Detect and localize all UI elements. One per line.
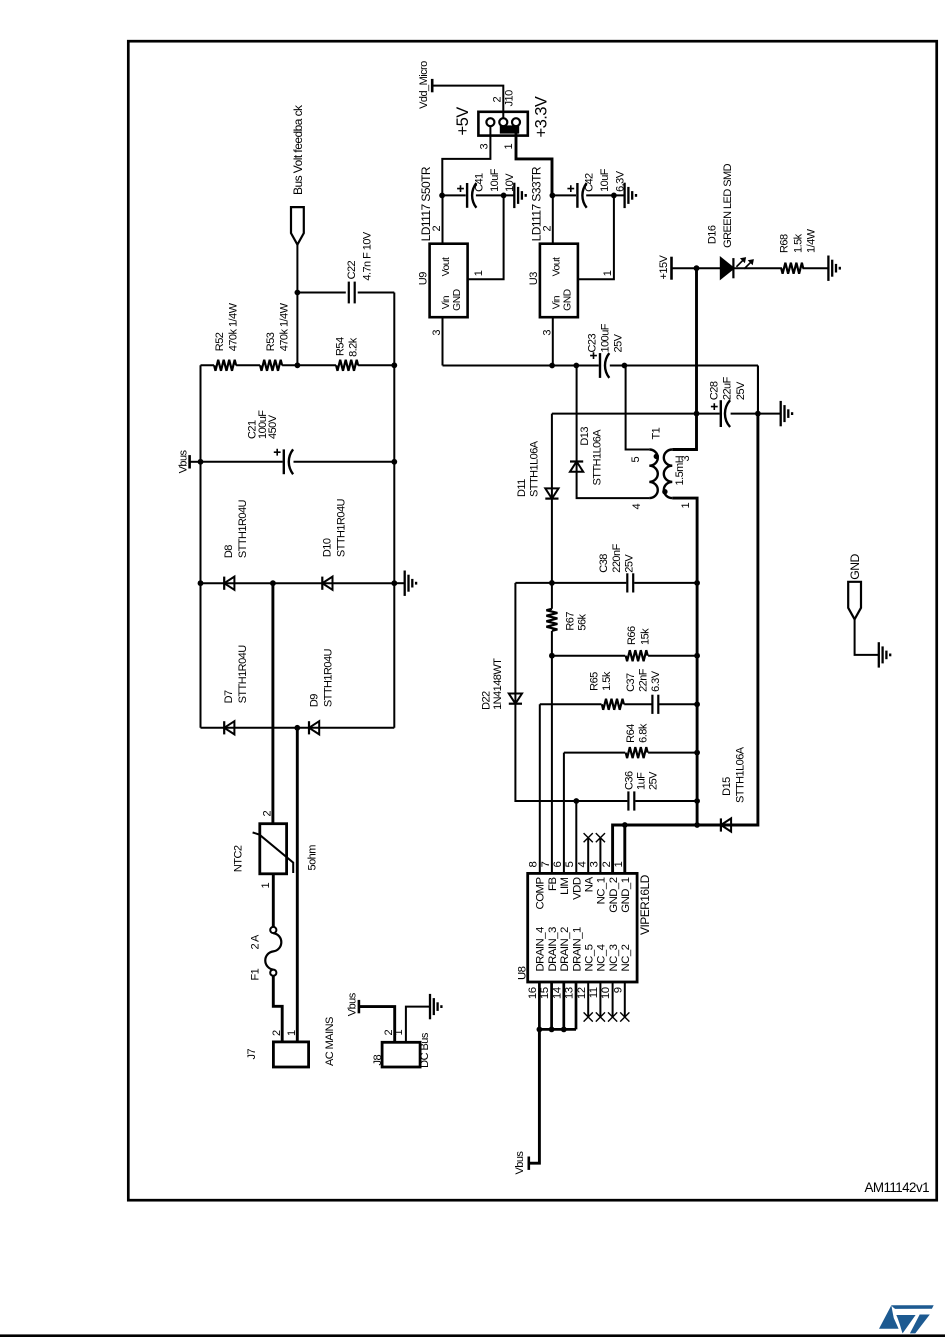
resistor R64 <box>626 747 648 758</box>
svg-text:56k: 56k <box>577 613 589 630</box>
wire FB pin 7 line <box>551 414 553 874</box>
wire fuse to NTC2 <box>272 874 275 927</box>
wire divider node to flag <box>296 245 298 366</box>
svg-text:4: 4 <box>631 504 643 510</box>
resistor R68 <box>781 263 803 274</box>
fuse F1 <box>265 927 281 976</box>
wire T1 pin4 lead <box>577 366 650 499</box>
wire bridge leg D7/D9 <box>201 727 395 729</box>
junction bus/C38 <box>694 580 700 586</box>
resistor R66 <box>626 650 648 661</box>
junction C41 bottom <box>501 193 507 199</box>
junction C21 / bottom rail <box>391 459 397 465</box>
svg-text:1/4W: 1/4W <box>806 228 818 253</box>
svg-text:D11: D11 <box>516 479 528 497</box>
svg-text:13: 13 <box>564 987 576 999</box>
svg-text:1: 1 <box>680 503 692 509</box>
svg-text:Vin: Vin <box>441 295 452 309</box>
svg-text:16: 16 <box>527 987 539 999</box>
svg-text:1N4148WT: 1N4148WT <box>492 658 504 710</box>
svg-text:STTH1R04U: STTH1R04U <box>322 648 334 707</box>
svg-text:C37: C37 <box>625 673 637 692</box>
junction rail/D13 <box>573 363 579 369</box>
pin circle J10-3 <box>486 118 494 126</box>
wire COMP pin 8 <box>539 704 541 873</box>
no-connect cross pin 11 <box>596 1012 605 1021</box>
junction bottom rail / D10 leg <box>391 580 397 586</box>
wire C36 branch <box>576 800 697 802</box>
svg-text:NA: NA <box>584 877 596 893</box>
connector J8 (DC bus) <box>382 1042 420 1067</box>
junction +15V/T1 pin3 line <box>694 265 700 271</box>
svg-text:2: 2 <box>541 226 553 232</box>
capacitor C37 <box>651 695 653 714</box>
resistor R53 <box>260 360 282 371</box>
svg-text:2: 2 <box>492 97 504 103</box>
svg-text:3: 3 <box>431 330 443 336</box>
svg-text:1: 1 <box>602 270 614 276</box>
svg-text:NC_1: NC_1 <box>596 877 608 904</box>
junction bus/C37 <box>694 701 700 707</box>
svg-text:T1: T1 <box>650 427 662 439</box>
wire R64 branch <box>564 752 697 754</box>
junction C42 bottom <box>611 193 617 199</box>
diode D22 <box>509 694 522 704</box>
svg-text:STTH1R04U: STTH1R04U <box>335 498 347 557</box>
svg-text:10uF: 10uF <box>489 168 501 192</box>
svg-text:D7: D7 <box>223 690 235 703</box>
svg-text:+5V: +5V <box>454 107 472 136</box>
svg-text:1: 1 <box>473 270 485 276</box>
transformer T1 primary winding <box>649 450 658 499</box>
svg-text:R67: R67 <box>565 612 577 631</box>
Vdd_Micro net flag <box>431 79 434 92</box>
junction FB/C38 <box>549 580 555 586</box>
thermistor NTC2 <box>253 824 294 874</box>
wire U9 pin2 Vout <box>442 195 444 243</box>
junction riser/T1 pin3 line <box>694 411 700 417</box>
junction AC1 <box>270 580 276 586</box>
junction VDD/C36/D22 <box>573 798 579 804</box>
wire R65/C37 branch <box>540 703 697 705</box>
svg-text:GREEN LED SMD: GREEN LED SMD <box>722 163 734 248</box>
wire D15 branch <box>697 414 758 825</box>
jumper shunt J10 <box>500 125 519 133</box>
junction bus/C36 <box>694 798 700 804</box>
svg-text:U8: U8 <box>517 966 529 980</box>
svg-text:1: 1 <box>503 144 515 150</box>
svg-text:470k 1/4W: 470k 1/4W <box>228 302 240 351</box>
svg-text:NC_2: NC_2 <box>620 944 632 971</box>
svg-text:D22: D22 <box>480 691 492 710</box>
svg-text:25V: 25V <box>735 381 747 400</box>
wire J7 pin2 to fuse <box>273 976 282 1042</box>
regulator U9 body <box>430 244 468 318</box>
svg-text:Vdd_Micro: Vdd_Micro <box>418 61 430 109</box>
wire ground link to output <box>757 366 759 414</box>
resistor R65 <box>602 699 624 710</box>
pin circle J10-2 <box>499 118 507 126</box>
svg-text:7: 7 <box>540 862 552 868</box>
svg-text:1: 1 <box>393 1030 405 1036</box>
svg-text:8: 8 <box>528 862 540 868</box>
svg-text:8.2k: 8.2k <box>347 337 359 357</box>
wire C38 branch <box>515 582 696 584</box>
ST logo <box>879 1305 934 1333</box>
svg-text:3: 3 <box>589 862 601 868</box>
wire J10 pin3 <box>442 126 490 196</box>
capacitor C41 <box>466 183 468 208</box>
wire U8 pin 12 stub <box>587 982 589 1017</box>
diode D8 <box>224 577 234 590</box>
svg-text:10uF: 10uF <box>599 168 611 192</box>
wire bridge leg D8/D10 <box>201 582 395 584</box>
svg-text:Vbus: Vbus <box>347 992 359 1016</box>
junction riser/ground link <box>755 411 761 417</box>
wire U8 pin 9 stub <box>624 982 626 1017</box>
wire bottom rail <box>393 293 395 728</box>
footer rule <box>0 1334 945 1337</box>
svg-text:25V: 25V <box>623 554 635 573</box>
wire IC ground bus <box>672 498 697 825</box>
diode D15 <box>721 818 731 831</box>
earth ground at bridge <box>394 571 416 596</box>
junction R54 / bottom rail <box>391 362 397 368</box>
svg-text:STTH1L06A: STTH1L06A <box>735 746 747 803</box>
capacitor C42 <box>576 183 578 208</box>
svg-text:LIM: LIM <box>559 877 571 894</box>
svg-text:Vout: Vout <box>441 257 452 276</box>
transformer T1 secondary winding <box>664 450 673 499</box>
svg-text:R53: R53 <box>265 332 277 351</box>
wire U8 pin 4 stub <box>587 838 589 874</box>
svg-text:R52: R52 <box>214 332 226 351</box>
svg-text:R68: R68 <box>778 234 790 253</box>
svg-text:U9: U9 <box>418 272 430 285</box>
svg-text:D9: D9 <box>309 694 321 707</box>
svg-text:FB: FB <box>547 878 559 891</box>
svg-text:STTH1R04U: STTH1R04U <box>237 499 249 558</box>
svg-text:25V: 25V <box>612 333 624 352</box>
svg-text:+3.3V: +3.3V <box>533 96 551 137</box>
svg-text:15: 15 <box>539 987 551 999</box>
wire U8 pin 3 stub <box>599 838 601 874</box>
svg-text:6: 6 <box>552 862 564 868</box>
wire T1 pin3 lead <box>672 268 696 449</box>
svg-text:9: 9 <box>612 987 624 993</box>
svg-text:1uF: 1uF <box>635 772 647 790</box>
wire GND pins 1-2 <box>613 825 698 873</box>
svg-text:11: 11 <box>588 987 600 998</box>
svg-text:DC Bus: DC Bus <box>419 1032 431 1068</box>
no-connect cross pin 4 <box>584 833 593 842</box>
no-connect cross pin 10 <box>608 1012 617 1021</box>
svg-text:AM11142v1: AM11142v1 <box>864 1180 929 1195</box>
wire U8 pin 11 stub <box>599 982 601 1017</box>
plus sign (C28) <box>711 403 718 410</box>
svg-text:25V: 25V <box>647 771 659 790</box>
svg-text:DRAIN_1: DRAIN_1 <box>571 927 583 971</box>
junction drain pin 14 <box>561 1027 567 1033</box>
Vbus net flag (J8) <box>358 1000 361 1013</box>
phasing dot T1 pin1 <box>662 489 667 494</box>
resistor R54 <box>336 360 358 371</box>
junction rail/T1 pin5 <box>622 363 628 369</box>
svg-text:C23: C23 <box>587 334 599 353</box>
no-connect cross pin 12 <box>584 1012 593 1021</box>
svg-text:C28: C28 <box>708 381 720 400</box>
svg-text:5: 5 <box>564 862 576 868</box>
wire C22 lower <box>358 292 395 294</box>
svg-text:Vout: Vout <box>551 257 562 276</box>
resistor R67 <box>546 609 557 631</box>
led arrows D16 <box>736 257 754 269</box>
svg-text:2: 2 <box>271 1030 283 1036</box>
svg-text:VIPER16LD: VIPER16LD <box>638 874 652 935</box>
diode D13 <box>570 462 583 472</box>
wire J8 pin1 to earth <box>406 1007 430 1043</box>
svg-text:1: 1 <box>613 862 625 868</box>
diode D9 <box>309 721 319 734</box>
capacitor C22 <box>348 282 350 304</box>
wire D11 anode riser <box>552 413 781 415</box>
svg-text:2: 2 <box>601 862 613 868</box>
svg-text:NC_3: NC_3 <box>608 944 620 971</box>
wire R66 branch <box>552 655 697 657</box>
capacitor C28 <box>720 400 722 427</box>
svg-text:GND: GND <box>848 554 862 580</box>
svg-text:STTH1L06A: STTH1L06A <box>528 440 540 497</box>
svg-text:R65: R65 <box>589 672 601 691</box>
wire U3 pin3 Vin <box>552 317 554 365</box>
svg-text:R54: R54 <box>334 337 346 356</box>
node flag Bus Volt feedback <box>291 207 304 245</box>
svg-text:3: 3 <box>541 330 553 336</box>
svg-text:STTH1R04U: STTH1R04U <box>237 645 249 704</box>
+15V net flag <box>670 257 673 280</box>
svg-text:STTH1L06A: STTH1L06A <box>591 429 603 486</box>
svg-text:2 A: 2 A <box>250 934 262 949</box>
svg-text:VDD: VDD <box>571 877 583 900</box>
capacitor C38 <box>626 573 628 592</box>
svg-text:DRAIN_3: DRAIN_3 <box>547 927 559 971</box>
wire U8 pin 10 stub <box>612 982 614 1017</box>
svg-text:R66: R66 <box>626 626 638 645</box>
svg-text:Vbus: Vbus <box>514 1151 526 1175</box>
earth ground at J8 <box>430 994 441 1019</box>
svg-text:4.7n F 10V: 4.7n F 10V <box>361 231 373 281</box>
junction drain pin 16 <box>537 1027 543 1033</box>
wire drain pins 16-13 <box>539 982 576 1029</box>
wire drain bus to Vbus flag <box>529 1029 540 1163</box>
svg-text:C22: C22 <box>346 260 358 279</box>
svg-text:450V: 450V <box>267 414 279 439</box>
ic U8 VIPER16LD body <box>528 873 637 982</box>
wire NTC2 to bridge node AC1 <box>271 583 274 824</box>
junction bus/R66 <box>694 653 700 659</box>
svg-text:470k 1/4W: 470k 1/4W <box>279 302 291 351</box>
regulator U3 body <box>540 244 578 318</box>
no-connect cross pin 9 <box>620 1012 629 1021</box>
resistor R52 <box>214 360 236 371</box>
junction C42 top <box>550 193 556 199</box>
wire C21 branch upper <box>201 461 283 463</box>
svg-text:GND: GND <box>452 289 463 310</box>
svg-text:Vbus: Vbus <box>177 449 189 473</box>
GND net flag <box>848 582 861 620</box>
plus sign (C42) <box>567 185 574 192</box>
wire D22 branch <box>515 583 576 801</box>
schematic frame border <box>128 41 936 1200</box>
junction drain pin 15 <box>549 1027 555 1033</box>
svg-text:GND: GND <box>562 289 573 310</box>
svg-text:D15: D15 <box>721 777 733 796</box>
junction top rail / D8 leg <box>198 580 204 586</box>
svg-text:220nF: 220nF <box>611 543 623 572</box>
wire J10 pin2 to Vdd_Micro <box>432 86 503 119</box>
svg-text:6.8k: 6.8k <box>637 723 649 743</box>
diode D7 <box>224 721 234 734</box>
svg-text:DRAIN_2: DRAIN_2 <box>559 927 571 971</box>
wire C22 upper <box>297 292 345 294</box>
svg-text:GND_1: GND_1 <box>620 877 632 912</box>
wire J8 pin2 to Vbus flag <box>359 1007 395 1043</box>
svg-text:DRAIN_4: DRAIN_4 <box>535 927 547 971</box>
junction C41 top <box>439 193 445 199</box>
svg-text:22nF: 22nF <box>637 668 649 692</box>
earth ground at C41 <box>514 183 525 208</box>
no-connect cross pin 3 <box>596 833 605 842</box>
svg-text:1.5k: 1.5k <box>601 671 613 691</box>
svg-text:NC_4: NC_4 <box>596 944 608 971</box>
wire Vbus top rail <box>200 365 202 728</box>
svg-text:D16: D16 <box>707 225 719 244</box>
wire U9 pin3 Vin <box>442 317 444 365</box>
earth ground at R68 <box>828 256 839 281</box>
svg-text:1: 1 <box>260 883 272 889</box>
svg-text:NTC2: NTC2 <box>232 845 244 872</box>
capacitor C23 <box>599 353 601 378</box>
wire VDD pin 5 <box>575 801 577 873</box>
svg-text:+15V: +15V <box>658 254 670 279</box>
svg-text:J7: J7 <box>246 1049 258 1060</box>
svg-text:5: 5 <box>630 457 642 463</box>
wire U9 pin1 GND <box>468 195 504 279</box>
svg-text:D13: D13 <box>579 427 591 446</box>
svg-text:10: 10 <box>600 987 612 999</box>
svg-text:C42: C42 <box>584 173 596 192</box>
svg-text:3: 3 <box>680 456 692 462</box>
svg-text:15k: 15k <box>640 628 652 645</box>
earth ground at GND flag <box>879 642 890 667</box>
svg-text:J8: J8 <box>372 1055 384 1066</box>
svg-text:C41: C41 <box>473 173 485 192</box>
junction divider mid node <box>295 362 301 368</box>
svg-text:U3: U3 <box>528 272 540 285</box>
junction FB/R66 <box>549 653 555 659</box>
wire T1 pin5 lead <box>626 366 650 450</box>
wire LED chain <box>672 267 829 269</box>
plus sign (C41) <box>457 185 464 192</box>
connector J7 (AC mains input) <box>273 1042 308 1067</box>
wire divider chain <box>201 364 395 366</box>
wire J7 pin1 to bridge node AC2 <box>296 728 299 1042</box>
connector J10 <box>478 112 527 136</box>
wire C41 branch <box>442 194 514 196</box>
capacitor C21 <box>283 449 285 474</box>
wire C21 branch lower <box>294 461 395 463</box>
svg-text:GND_2: GND_2 <box>608 877 620 912</box>
junction bus/R64 <box>694 750 700 756</box>
plus sign (C23) <box>590 352 597 359</box>
svg-text:J10: J10 <box>504 90 516 107</box>
wire J10 pin1 <box>516 126 552 196</box>
earth ground at C42 <box>625 183 636 208</box>
junction bus/GND pins <box>694 822 700 828</box>
svg-text:1.5k: 1.5k <box>792 233 804 253</box>
junction rail/U3 Vin <box>549 363 555 369</box>
svg-text:4: 4 <box>576 862 588 868</box>
diode D10 <box>322 577 332 590</box>
pin circle J10-1 <box>512 118 520 126</box>
svg-text:D8: D8 <box>223 545 235 558</box>
svg-text:3: 3 <box>478 144 490 150</box>
Vbus net flag (input) <box>190 455 201 468</box>
svg-text:14: 14 <box>551 987 563 999</box>
svg-text:F1: F1 <box>250 968 262 980</box>
wire GND flag to earth <box>855 619 879 655</box>
Vbus net flag (drain) <box>527 1157 530 1170</box>
led D16 <box>721 258 734 278</box>
svg-text:AC MAINS: AC MAINS <box>324 1017 336 1066</box>
wire C42 branch <box>552 194 624 196</box>
wire LIM pin 6 <box>563 753 565 874</box>
svg-text:100uF: 100uF <box>600 323 612 352</box>
capacitor C36 <box>627 791 629 810</box>
svg-text:C36: C36 <box>623 771 635 790</box>
wire U3 pin2 Vout <box>552 195 554 243</box>
svg-text:D10: D10 <box>322 538 334 557</box>
svg-text:6.3V: 6.3V <box>650 670 662 692</box>
svg-text:R64: R64 <box>625 724 637 743</box>
svg-text:Bus Volt feedba ck: Bus Volt feedba ck <box>291 104 305 195</box>
svg-text:NC_5: NC_5 <box>584 944 596 971</box>
svg-text:22uF: 22uF <box>722 376 734 400</box>
svg-text:Vin: Vin <box>551 295 562 309</box>
svg-text:2: 2 <box>431 226 443 232</box>
wire +15V rail <box>443 366 759 414</box>
junction C22 branch <box>295 290 301 296</box>
svg-text:12: 12 <box>576 987 588 999</box>
svg-text:COMP: COMP <box>535 878 547 910</box>
earth ground at output <box>781 401 792 426</box>
svg-text:5ohm: 5ohm <box>306 845 318 871</box>
junction AC2 <box>294 725 300 731</box>
wire U3 pin1 GND <box>578 195 614 279</box>
phasing dot T1 pin5 <box>654 454 659 459</box>
junction GND pin 1 <box>622 822 628 828</box>
junction Vbus node <box>198 459 204 465</box>
plus sign (C21) <box>274 449 281 456</box>
diode D11 <box>545 488 558 498</box>
svg-text:C38: C38 <box>598 554 610 573</box>
